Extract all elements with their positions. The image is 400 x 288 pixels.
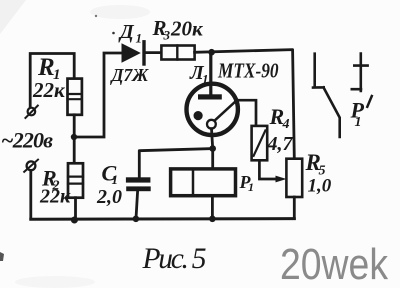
resistor R1	[68, 79, 82, 115]
wire starter diagonal to envelope edge	[216, 101, 237, 120]
label 22к (R2 value)	[39, 186, 71, 208]
relay contact P1' fixed contact	[352, 54, 368, 92]
svg-text:1: 1	[202, 72, 209, 87]
label R5	[305, 150, 326, 179]
diode Д1	[122, 42, 162, 64]
svg-text:20к: 20к	[170, 17, 204, 41]
wire top-left loop (R1 top to upper AC terminal)	[30, 54, 74, 107]
tube starter electrode dot	[194, 111, 203, 120]
label Л1	[189, 62, 209, 87]
wire R5 bottom to bottom rail	[293, 197, 296, 219]
junction node tube anode on top rail	[208, 49, 215, 56]
potentiometer R5	[286, 159, 302, 197]
label ~220в	[1, 128, 53, 153]
svg-text:2,0: 2,0	[96, 186, 122, 208]
wire bottom rail	[31, 217, 295, 221]
svg-text:~220в: ~220в	[1, 128, 53, 153]
label 2,0 (C1 value)	[96, 186, 122, 208]
label R3	[152, 16, 171, 43]
label R2	[41, 166, 60, 194]
junction node cathode	[209, 145, 216, 152]
terminal lower ~220в	[24, 160, 38, 172]
label 1,0 (R5 value)	[308, 176, 332, 197]
svg-text:3: 3	[163, 28, 171, 43]
label Д7Ж (diode type)	[110, 65, 150, 85]
svg-text:МТХ-90: МТХ-90	[217, 59, 279, 83]
svg-text:22к: 22к	[39, 186, 71, 208]
svg-text:4,7: 4,7	[267, 133, 294, 155]
relay contact P1' moving blade	[313, 54, 340, 137]
label МТХ-90 (tube type)	[217, 59, 279, 83]
label C1	[102, 161, 119, 188]
svg-text:1,0: 1,0	[308, 176, 332, 197]
svg-text:Д7Ж: Д7Ж	[110, 65, 150, 85]
label 22к (R1 value)	[32, 78, 66, 102]
capacitor C1	[126, 177, 151, 191]
wire R2 bottom to rail	[74, 198, 77, 219]
wire anode lead into tube	[209, 52, 212, 95]
svg-text:1: 1	[136, 31, 143, 46]
wire lower terminal to bottom rail	[29, 171, 32, 219]
caption Рис. 5	[142, 243, 207, 275]
wire relay bottom to bottom rail	[211, 196, 214, 219]
wire R1 bottom to R2 top	[73, 115, 76, 164]
svg-text:22к: 22к	[32, 78, 66, 102]
junction node R2 bottom	[71, 217, 78, 224]
svg-text:Рис. 5: Рис. 5	[142, 243, 207, 275]
junction node C1 bottom	[133, 216, 140, 223]
label R1	[37, 54, 61, 83]
relay coil P1	[171, 169, 236, 196]
svg-text:1: 1	[112, 172, 119, 187]
tube anode electrode bar	[198, 94, 222, 99]
svg-text:1: 1	[248, 180, 254, 194]
junction node relay bottom	[209, 216, 216, 223]
tube Л1 envelope	[187, 84, 238, 135]
wire cathode node to C1 top	[139, 149, 212, 178]
wire C1 bottom to bottom rail	[136, 191, 138, 218]
wire junction to diode anode	[74, 53, 122, 137]
label R4	[269, 104, 290, 132]
resistor R3	[161, 46, 194, 60]
svg-text:4: 4	[282, 117, 290, 132]
wire R3 to right rail corner and down to R5	[195, 50, 295, 159]
label 4,7 (R4 value)	[267, 133, 294, 155]
wire tube right side to R4 top	[236, 100, 257, 126]
resistor R2	[68, 163, 83, 197]
wire cathode down to relay	[212, 129, 213, 169]
wire R4 bottom to R5 wiper with arrow	[259, 160, 286, 182]
label 20к (R3 value)	[170, 17, 204, 41]
svg-text:1: 1	[355, 115, 362, 130]
resistor R4	[252, 126, 268, 160]
svg-text:Д: Д	[118, 21, 135, 43]
label Д1	[118, 21, 142, 46]
watermark 20wek	[280, 240, 389, 288]
terminal upper ~220в	[25, 106, 37, 118]
label P1'	[350, 96, 372, 130]
label P1	[239, 172, 255, 194]
svg-text:20wek: 20wek	[280, 240, 389, 288]
junction node R1-R2	[71, 134, 77, 140]
tube cathode circle	[207, 120, 216, 129]
